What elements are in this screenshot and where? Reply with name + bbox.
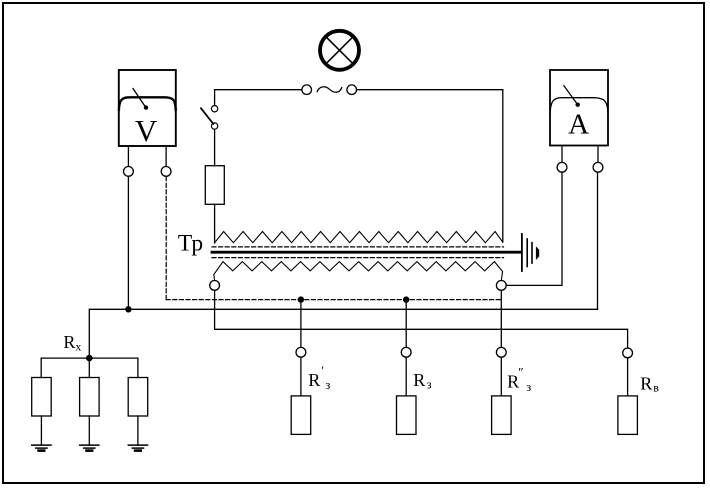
svg-text:з: з [325, 378, 330, 392]
svg-text:R: R [413, 370, 425, 390]
svg-text:R: R [63, 332, 75, 352]
svg-text:″: ″ [518, 365, 523, 380]
svg-text:A: A [568, 109, 589, 141]
svg-text:з: з [427, 377, 432, 391]
svg-text:з: з [526, 380, 531, 394]
svg-text:R: R [640, 374, 652, 394]
svg-text:R: R [308, 370, 320, 390]
svg-text:′: ′ [321, 363, 324, 378]
svg-text:Тр: Тр [178, 231, 203, 257]
svg-text:x: x [75, 340, 81, 354]
svg-text:V: V [135, 113, 158, 148]
svg-text:в: в [653, 380, 659, 394]
